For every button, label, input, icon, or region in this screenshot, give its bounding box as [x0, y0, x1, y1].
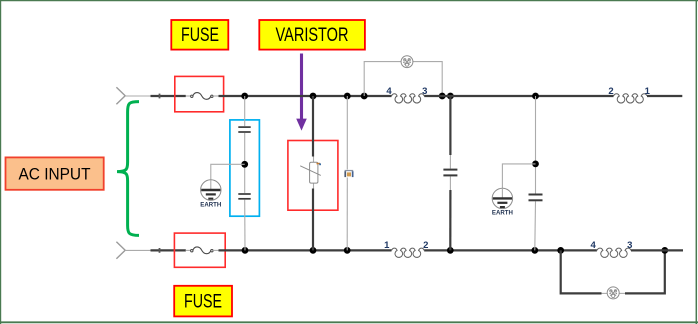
wire: top-left lead from connector to fuse	[125, 94, 186, 99]
label FUSE (top)	[171, 20, 228, 50]
svg-text:4: 4	[591, 240, 597, 251]
node: choke L4 bypass right	[661, 247, 668, 254]
svg-text:EARTH: EARTH	[492, 210, 513, 217]
node: bottom of C4 branch	[531, 247, 538, 254]
choke L4 bypass loop with core symbol	[561, 250, 665, 299]
label VARISTOR	[259, 20, 365, 50]
svg-text:AC INPUT: AC INPUT	[19, 165, 91, 184]
AC input green brace	[117, 102, 139, 236]
svg-text:4: 4	[386, 86, 392, 97]
node: bottom of X-cap branch	[242, 247, 249, 254]
earth symbol E2	[492, 164, 536, 217]
wire: top line, choke L1 to inductor L2	[424, 95, 613, 97]
wire: bottom line, right end	[631, 249, 683, 251]
node: bottom of middle branch	[344, 247, 351, 254]
choke L4 winding 4-3 (bottom right)	[591, 240, 633, 257]
wire: bottom line, L3 to choke L4	[424, 249, 597, 251]
wire: varistor branch vertical	[312, 96, 315, 250]
svg-text:VARISTOR: VARISTOR	[276, 24, 349, 46]
inductor L2 winding 2-1 (top right)	[608, 86, 650, 103]
svg-text:1: 1	[384, 240, 390, 251]
capacitor C2 (lower X-cap)	[238, 194, 250, 199]
wire: top line, fuse to choke L1	[219, 95, 392, 97]
node: choke L4 bypass left	[557, 247, 564, 254]
fuse F1 (top) highlight box	[175, 76, 224, 111]
middle branch (thermistor) vertical wire	[346, 96, 348, 250]
wire: X-cap branch vertical	[244, 96, 246, 250]
svg-text:FUSE: FUSE	[184, 291, 222, 313]
X-capacitor highlight box (cyan)	[230, 120, 260, 216]
wire: C3 branch vertical	[449, 96, 451, 250]
node: top of varistor branch	[310, 93, 317, 100]
fuse F2 (bottom) highlight box	[174, 233, 225, 267]
fuse F1 symbol	[186, 93, 219, 100]
node: top of cap C3 branch	[447, 93, 454, 100]
thermistor RT1 (tiny designator icon)	[344, 170, 353, 177]
node: earth E2 junction	[532, 161, 539, 168]
input port connector (bottom, neutral)	[116, 242, 125, 259]
capacitor C3 (line-to-line)	[443, 170, 457, 176]
label FUSE (bottom)	[174, 286, 232, 317]
node: top of X-cap branch	[241, 93, 248, 100]
node: X-cap midpoint	[241, 161, 248, 168]
varistor RV1 highlight box	[288, 141, 338, 211]
choke L1 bypass loop with core symbol	[364, 56, 442, 96]
capacitor C4 (Y-cap)	[529, 195, 543, 201]
wire: C4/earth branch vertical	[534, 96, 537, 250]
node: bottom of cap C3 branch	[447, 247, 454, 254]
varistor RV1 symbol	[300, 162, 321, 183]
svg-text:2: 2	[608, 86, 613, 97]
wire: bottom line, fuse to inductor L3	[219, 249, 392, 251]
input port connector (top, line)	[116, 87, 125, 104]
node: choke L1 bypass left	[361, 93, 368, 100]
node: choke L1 bypass right	[439, 93, 446, 100]
wire: bottom-left lead from connector to fuse	[125, 248, 186, 253]
svg-text:FUSE: FUSE	[181, 24, 219, 46]
node: top of middle branch	[344, 93, 351, 100]
wire: top line, right end	[647, 95, 682, 97]
fuse F2 symbol	[186, 247, 219, 254]
node: top of earth/C4 branch	[532, 93, 539, 100]
node: bottom of varistor branch	[310, 247, 317, 254]
earth symbol E1	[200, 164, 244, 208]
choke L1 winding 4-3 (top)	[386, 86, 427, 103]
varistor pointer arrow	[296, 54, 307, 131]
capacitor C1 (upper X-cap)	[238, 127, 250, 132]
inductor L3 winding 1-2 (bottom)	[384, 240, 428, 257]
label AC INPUT	[6, 157, 104, 189]
svg-text:EARTH: EARTH	[200, 201, 221, 208]
